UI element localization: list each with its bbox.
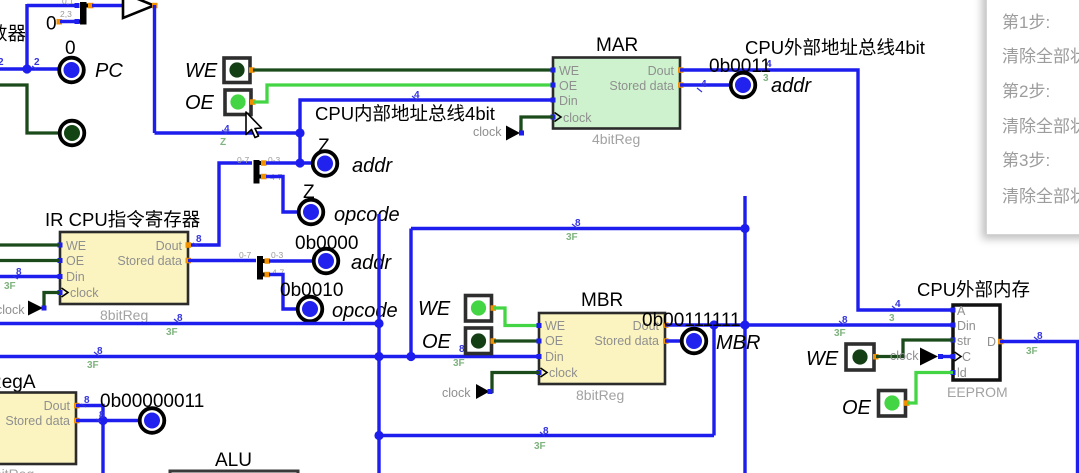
svg-text:3F: 3F bbox=[4, 281, 16, 292]
value 0b0000 bbox=[295, 233, 358, 254]
svg-text:3F: 3F bbox=[166, 327, 178, 338]
tunnel clock (EEPROM) bbox=[890, 348, 953, 366]
svg-text:4: 4 bbox=[895, 299, 901, 310]
svg-text:3: 3 bbox=[889, 313, 895, 324]
label 0,1 (splitter, clipped) bbox=[62, 0, 74, 6]
svg-text:OE: OE bbox=[545, 334, 563, 348]
probe MBR bbox=[682, 329, 761, 354]
wire vertical x745 bbox=[709, 196, 749, 473]
svg-text:C: C bbox=[962, 350, 971, 364]
wire RegA Dout bbox=[76, 406, 103, 473]
svg-text:3F: 3F bbox=[453, 358, 465, 369]
wire RegA stored data bbox=[76, 416, 140, 425]
svg-text:WE: WE bbox=[545, 319, 565, 333]
svg-text:0,1: 0,1 bbox=[62, 0, 74, 6]
svg-text:3F: 3F bbox=[534, 441, 546, 452]
register IR bbox=[45, 209, 200, 323]
button OE (EEPROM) bbox=[842, 391, 910, 420]
button WE (MAR) bbox=[185, 58, 255, 83]
wire S3 out 0-3 bbox=[269, 259, 313, 262]
svg-text:数器: 数器 bbox=[0, 23, 26, 44]
register RegA bbox=[0, 372, 80, 473]
svg-text:D: D bbox=[987, 335, 996, 349]
svg-text:0: 0 bbox=[46, 14, 57, 35]
tunnel clock (MAR) bbox=[473, 117, 553, 141]
wire S2 out 0-3 bbox=[266, 161, 312, 164]
probe carry (1-bit low) bbox=[60, 121, 85, 146]
annotation 8/3F (bus y435) bbox=[534, 426, 549, 452]
instruction panel bbox=[986, 0, 1079, 235]
svg-text:2: 2 bbox=[0, 57, 4, 68]
splitter S2 bbox=[237, 155, 283, 184]
annotation 8/3F (bus x458) bbox=[453, 344, 465, 369]
svg-text:Z: Z bbox=[220, 137, 226, 148]
svg-text:WE: WE bbox=[559, 64, 579, 78]
svg-text:0: 0 bbox=[65, 38, 76, 59]
tunnel clock (MBR) bbox=[442, 373, 539, 401]
annotation 8/3F (bus y324) bbox=[166, 313, 183, 338]
label CPU外部地址总线4bit bbox=[745, 37, 925, 58]
value 0b0011 bbox=[709, 56, 771, 77]
wire WE to EEPROM str bbox=[876, 340, 953, 357]
wire to carry probe bbox=[0, 85, 60, 133]
svg-text:clock: clock bbox=[0, 303, 25, 317]
annotation 8/3F (bus y228) bbox=[566, 218, 581, 243]
wire MAR stored data to probe bbox=[680, 83, 731, 86]
wire IR stored data to splitter bbox=[188, 259, 256, 262]
mouse cursor bbox=[246, 112, 262, 138]
probe addr (IR low nibble) bbox=[314, 249, 393, 274]
wire PC bbox=[0, 64, 60, 73]
annotation 8/3F (D wire) bbox=[1026, 331, 1043, 357]
svg-text:MAR: MAR bbox=[596, 35, 638, 56]
register MBR bbox=[537, 290, 669, 403]
wire buffer output down to internal bus bbox=[155, 5, 301, 133]
constant 0 bbox=[46, 14, 79, 35]
button WE (EEPROM) bbox=[806, 344, 879, 370]
button OE (MBR) bbox=[422, 328, 496, 354]
svg-text:Din: Din bbox=[957, 319, 976, 333]
svg-text:Stored data: Stored data bbox=[117, 254, 182, 268]
svg-text:Din: Din bbox=[559, 94, 578, 108]
svg-text:8: 8 bbox=[84, 395, 90, 406]
probe RegA bbox=[140, 408, 165, 433]
label 程序计数器 (partial) bbox=[0, 23, 26, 44]
svg-text:Din: Din bbox=[66, 270, 85, 284]
annotation 8 (RegA stored) bbox=[96, 410, 105, 422]
svg-text:OE: OE bbox=[842, 397, 872, 419]
label CPU外部内存 bbox=[917, 279, 1030, 300]
svg-text:8bitReg: 8bitReg bbox=[100, 307, 148, 323]
annotation 4/3 (ext addr corner) bbox=[763, 59, 772, 84]
svg-text:clock: clock bbox=[549, 366, 578, 380]
tunnel clock (IR) bbox=[0, 293, 60, 318]
svg-text:0-7: 0-7 bbox=[237, 155, 250, 165]
button OE (MAR) bbox=[185, 90, 256, 115]
wire MBR Dout to EEPROM Din bbox=[665, 323, 953, 326]
svg-text:A: A bbox=[957, 304, 966, 318]
wire top data bus y228 bbox=[411, 224, 750, 357]
probe opcode (IR high nibble) bbox=[298, 297, 398, 322]
svg-text:3F: 3F bbox=[566, 232, 578, 243]
svg-text:0-7: 0-7 bbox=[239, 250, 252, 260]
annotation 2 (left edge) bbox=[0, 57, 4, 68]
svg-text:ALU: ALU bbox=[215, 450, 252, 471]
svg-text:PC: PC bbox=[95, 60, 123, 82]
svg-text:clock: clock bbox=[442, 386, 471, 400]
svg-text:CPU内部地址总线4bit: CPU内部地址总线4bit bbox=[315, 103, 495, 124]
wire external address bus bbox=[680, 70, 953, 310]
wire data bus Din (horizontal) bbox=[0, 352, 539, 361]
svg-text:addr: addr bbox=[352, 155, 393, 177]
svg-text:4: 4 bbox=[701, 79, 707, 90]
svg-text:opcode: opcode bbox=[334, 204, 400, 226]
wire IR OE bbox=[0, 259, 60, 262]
svg-text:CPU外部内存: CPU外部内存 bbox=[917, 279, 1030, 300]
probe PC bbox=[59, 38, 123, 82]
memory EEPROM bbox=[947, 304, 1008, 400]
probe addr (internal bus Z) bbox=[313, 136, 394, 177]
label 2,3 bbox=[60, 9, 72, 19]
wire data bus left (y324) bbox=[0, 319, 384, 328]
wire S3 out 4-7 bbox=[269, 275, 297, 310]
svg-text:CPU外部地址总线4bit: CPU外部地址总线4bit bbox=[745, 37, 925, 58]
annotation 8 (RegA Dout) bbox=[81, 395, 90, 407]
probe addr (MAR) bbox=[731, 73, 813, 98]
svg-text:Dout: Dout bbox=[156, 239, 183, 253]
svg-text:2,3: 2,3 bbox=[60, 9, 72, 19]
wire IR Din bbox=[0, 275, 60, 278]
svg-text:8: 8 bbox=[16, 267, 22, 278]
svg-text:OE: OE bbox=[422, 331, 452, 353]
svg-text:Stored data: Stored data bbox=[609, 79, 674, 93]
wire IR WE bbox=[0, 243, 60, 246]
value 0b00111111 bbox=[642, 310, 741, 331]
svg-text:WE: WE bbox=[185, 60, 218, 82]
svg-text:8bitReg: 8bitReg bbox=[0, 466, 34, 473]
svg-text:4bitReg: 4bitReg bbox=[592, 131, 640, 147]
svg-text:OE: OE bbox=[559, 79, 577, 93]
svg-text:ld: ld bbox=[957, 366, 967, 380]
svg-text:addr: addr bbox=[351, 252, 392, 274]
register MAR bbox=[551, 35, 684, 147]
value 0b00000011 bbox=[100, 391, 204, 412]
svg-text:WE: WE bbox=[66, 239, 86, 253]
wire IR Dout riser to splitter bbox=[188, 163, 252, 245]
svg-text:0-3: 0-3 bbox=[271, 250, 284, 260]
svg-text:RegA: RegA bbox=[0, 372, 36, 393]
svg-text:clock: clock bbox=[890, 349, 919, 363]
wire top-left 2bit bbox=[27, 4, 77, 69]
splitter S3 bbox=[239, 250, 285, 280]
alu ALU bbox=[170, 450, 298, 473]
svg-text:clock: clock bbox=[563, 111, 592, 125]
label CPU内部地址总线4bit bbox=[315, 103, 495, 124]
svg-text:Dout: Dout bbox=[44, 399, 71, 413]
annotation 4/3 (EEPROM A wire) bbox=[889, 299, 901, 324]
svg-text:Din: Din bbox=[545, 350, 564, 364]
wire S2 out 4-7 bbox=[266, 177, 299, 213]
svg-text:EEPROM: EEPROM bbox=[947, 384, 1008, 400]
wire bottom data bus y435 bbox=[379, 325, 714, 436]
probe opcode (Z) bbox=[299, 182, 400, 226]
svg-text:Stored data: Stored data bbox=[594, 334, 659, 348]
wire MBR stored data to probe bbox=[665, 339, 682, 342]
annotation 4 / Z on internal bus bbox=[220, 124, 230, 148]
svg-text:IR CPU指令寄存器: IR CPU指令寄存器 bbox=[45, 209, 200, 230]
buffer gate bbox=[123, 0, 158, 18]
svg-text:OE: OE bbox=[66, 254, 84, 268]
wire WE to MBR bbox=[494, 308, 539, 326]
annotation 8/3F (IR Din) bbox=[4, 267, 22, 292]
annotation 8/3F (Dout bus) bbox=[834, 315, 848, 339]
svg-text:clock: clock bbox=[473, 125, 502, 139]
annotation 2 (PC wire) bbox=[32, 57, 40, 69]
svg-text:Stored data: Stored data bbox=[5, 414, 70, 428]
annotation 4 (MAR Din wire) bbox=[412, 90, 420, 101]
button WE (MBR) bbox=[418, 296, 496, 322]
wire OE to MAR bbox=[254, 85, 553, 102]
annotation 8/3F (bus x100) bbox=[87, 346, 103, 371]
svg-text:MBR: MBR bbox=[716, 332, 760, 354]
wire OE to EEPROM ld bbox=[907, 373, 953, 404]
svg-text:2: 2 bbox=[34, 57, 40, 68]
svg-text:3F: 3F bbox=[834, 328, 846, 339]
wire WE to MAR bbox=[253, 68, 553, 71]
svg-text:Dout: Dout bbox=[648, 64, 675, 78]
value 0b0010 bbox=[280, 280, 343, 301]
svg-text:3F: 3F bbox=[1026, 346, 1038, 357]
svg-text:8: 8 bbox=[196, 234, 202, 245]
annotation 4 (stored wire) bbox=[697, 79, 707, 92]
wire vertical x379 bbox=[374, 214, 383, 473]
wire splitter to buffer bbox=[92, 4, 123, 7]
svg-text:WE: WE bbox=[418, 298, 451, 320]
svg-text:8bitReg: 8bitReg bbox=[576, 387, 624, 403]
annotation 8 (IR Dout) bbox=[193, 234, 202, 246]
wire MAR Din bbox=[295, 100, 553, 168]
svg-text:OE: OE bbox=[185, 92, 215, 114]
splitter S1 bbox=[75, 2, 94, 25]
svg-text:MBR: MBR bbox=[581, 290, 623, 311]
wire OE to MBR bbox=[494, 339, 539, 342]
svg-text:opcode: opcode bbox=[332, 300, 398, 322]
svg-text:str: str bbox=[957, 334, 971, 348]
svg-text:3F: 3F bbox=[87, 360, 99, 371]
wire EEPROM D output bbox=[1000, 342, 1078, 473]
svg-text:WE: WE bbox=[806, 348, 839, 370]
svg-text:addr: addr bbox=[771, 75, 812, 97]
svg-text:clock: clock bbox=[70, 286, 99, 300]
